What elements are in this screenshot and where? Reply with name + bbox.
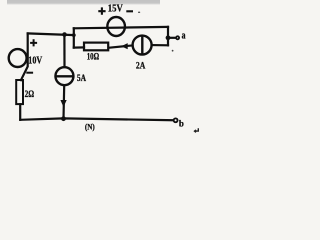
svg-text:15V: 15V <box>108 4 124 15</box>
wire: 2-ohm bottom lead <box>19 104 21 120</box>
scan gray band top <box>7 0 160 5</box>
label + of 15V <box>98 7 105 14</box>
terminal b open circle <box>174 118 178 122</box>
wire: terminal a stub <box>168 37 175 39</box>
wire: left riser <box>73 28 75 47</box>
wire: bottom rail <box>20 118 173 120</box>
wire: lower branch mid segment (10-ohm to 2A) <box>109 45 132 47</box>
svg-text:a: a <box>182 31 186 42</box>
node dot at left riser junction <box>72 33 76 37</box>
current source 5A circle <box>55 67 73 85</box>
label minus of 10V <box>26 72 33 74</box>
svg-text:10V: 10V <box>28 55 42 66</box>
svg-text:10Ω: 10Ω <box>87 52 100 62</box>
svg-text:(N): (N) <box>85 122 95 131</box>
terminal a open circle <box>176 36 179 39</box>
resistor 2-ohm <box>16 80 23 104</box>
speck right of 2A <box>172 50 174 52</box>
label + of 10V <box>30 39 37 46</box>
wire: 5A bottom lead <box>62 86 65 119</box>
wire: 5A top lead <box>63 35 65 67</box>
paper background <box>0 0 202 136</box>
svg-text:2A: 2A <box>136 62 146 72</box>
voltage source 15V circle <box>107 17 125 36</box>
node dot J1 (top of 5A branch) <box>62 32 67 37</box>
arrow of 5A source (down) <box>60 100 66 107</box>
wire: lower branch left segment <box>74 46 84 48</box>
wire: lower branch right segment <box>152 44 168 46</box>
svg-text:2Ω: 2Ω <box>25 90 35 100</box>
svg-text:5A: 5A <box>77 74 86 84</box>
svg-text:b: b <box>179 119 185 130</box>
current source 2A circle <box>133 36 152 55</box>
return mark bottom right <box>195 128 199 132</box>
node dot on bottom rail (5A branch) <box>61 116 66 121</box>
wire: left branch vertical (through 10V source) <box>21 34 28 81</box>
speck near 15V minus <box>138 12 140 13</box>
wire: right riser <box>167 27 169 45</box>
wire: top rail (through 15V source) <box>74 27 168 28</box>
wire: mid-left horizontal (10V top to risers) <box>28 33 74 35</box>
label minus of 15V <box>126 10 133 12</box>
resistor 10-ohm <box>84 43 108 51</box>
node dot at terminal a junction <box>166 35 171 40</box>
voltage source 10V circle <box>9 49 27 67</box>
arrow on 2A branch (left) <box>121 43 128 49</box>
